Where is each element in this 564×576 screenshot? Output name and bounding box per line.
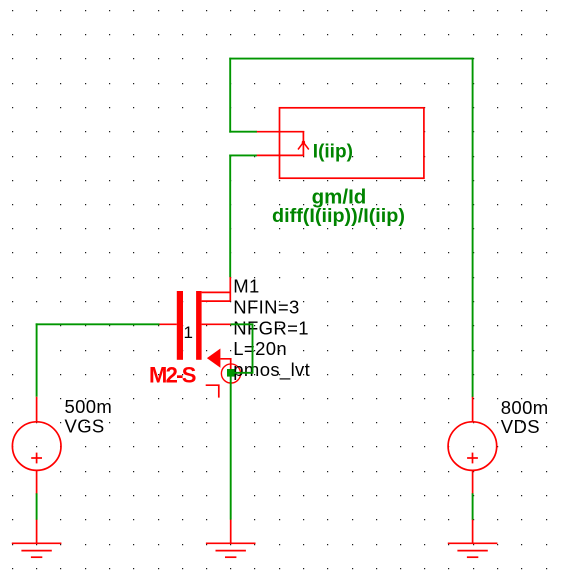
wire bulk bottom horizontal [231,372,254,374]
ground (middle) [206,520,256,558]
current probe iip box [280,108,424,178]
VDS top lead [472,397,474,422]
svg-text:L=20n: L=20n [233,338,287,359]
VDS plus [467,457,478,459]
VDS circle [448,422,497,471]
M1 channel bar [196,291,202,360]
current probe iip hook [257,132,304,156]
svg-text:M1: M1 [233,276,259,297]
wire bulk vertical [252,323,254,372]
M1 source pin line [220,359,230,373]
wire source down to ground [230,373,232,520]
svg-text:VDS: VDS [501,416,540,437]
M1 gate bar [177,291,183,360]
ground (right) [448,520,498,558]
transistor M1 (pmos_lvt) [159,277,241,398]
ground (left) [12,520,62,558]
svg-text:I(iip): I(iip) [313,142,353,163]
VDS bottom lead [472,470,474,494]
svg-text:diff(I(iip))/I(iip): diff(I(iip))/I(iip) [272,205,405,227]
wire out of probe (horizontal) [229,154,257,156]
M1 bulk pin line [202,323,231,325]
M1 bulk tail mark [206,385,219,397]
voltage source VDS [448,397,497,494]
wire top horizontal (drain net to VDS) [229,58,473,60]
VGS bottom lead [36,470,38,494]
wire left vertical top (into current probe) [229,58,231,133]
svg-text:500m: 500m [65,396,113,417]
svg-text:pmos_lvt: pmos_lvt [233,359,310,381]
svg-text:NFIN=3: NFIN=3 [233,296,299,317]
VGS plus [31,457,42,459]
junction node M2-S [227,369,235,377]
svg-text:M2-S: M2-S [149,362,196,387]
wire probe to drain of M1 [229,155,231,278]
wire VGS to ground [36,493,38,520]
wire into probe (horizontal) [229,131,257,133]
wire gate vertical to VGS [36,323,38,396]
current probe iip arrow [298,142,309,149]
M1 source arrow [207,349,221,368]
wire bulk top horizontal [231,323,254,325]
wire right vertical (to VDS source) [472,58,474,398]
svg-text:NFGR=1: NFGR=1 [233,317,309,338]
wire gate horizontal [36,323,160,325]
M1 source pin circle [221,364,240,383]
wire VDS to ground [472,493,474,520]
svg-text:1: 1 [184,323,193,342]
M1 gate pin line [159,323,177,325]
voltage source VGS [12,397,61,494]
VGS circle [12,422,61,471]
svg-text:VGS: VGS [65,415,105,436]
VGS top lead [36,397,38,422]
svg-text:800m: 800m [501,397,549,418]
M1 drain pin line [229,277,231,301]
